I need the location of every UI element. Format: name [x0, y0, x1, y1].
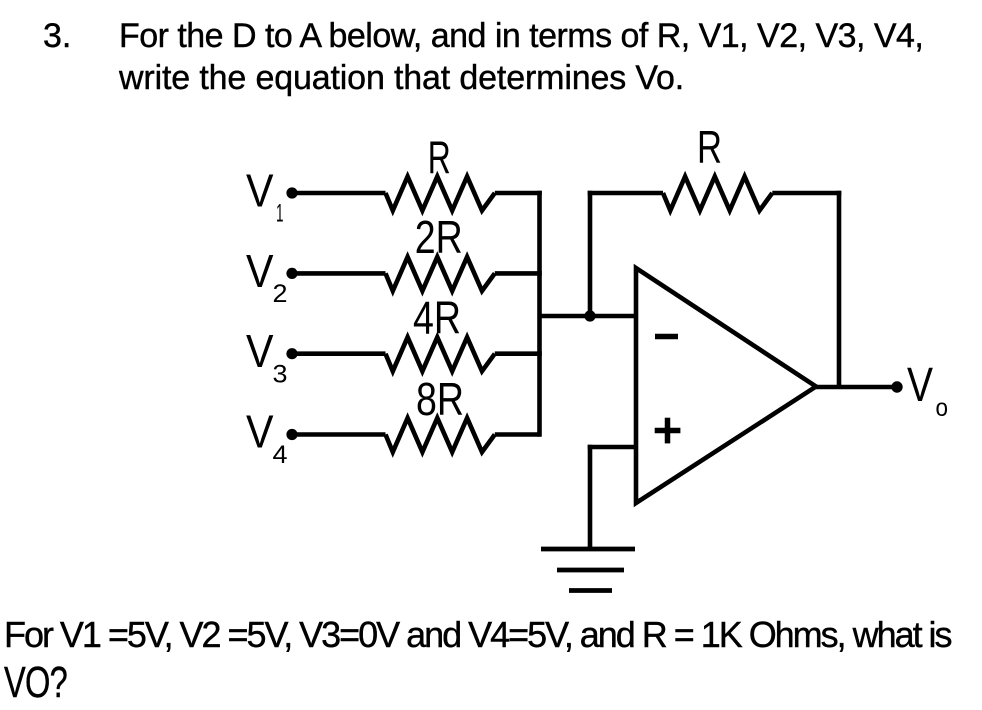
svg-text:V: V: [246, 406, 274, 458]
resistor 4R (row 3): [386, 337, 495, 371]
svg-text:3: 3: [273, 361, 288, 389]
wire V4 lead: [292, 432, 386, 437]
wire V2 lead: [292, 271, 386, 276]
wire R row1 to bus: [495, 191, 542, 196]
node V1 input dot: [286, 187, 297, 198]
svg-text:1: 1: [276, 200, 284, 228]
wire bus to op-amp inverting input: [540, 314, 637, 319]
svg-text:4: 4: [273, 441, 288, 469]
svg-text:2R: 2R: [415, 211, 463, 263]
wire feedback right vertical: [837, 191, 842, 387]
svg-text:R: R: [428, 132, 451, 184]
wire summing bus vertical: [537, 191, 542, 437]
node output dot: [891, 381, 902, 392]
wire feedback left vertical: [588, 191, 593, 316]
svg-text:o: o: [936, 394, 949, 422]
node summing junction dot: [584, 310, 595, 321]
resistor R (feedback): [663, 177, 772, 211]
wire non-inverting input lead: [588, 445, 636, 450]
svg-text:V: V: [246, 165, 274, 217]
svg-text:V: V: [907, 359, 933, 412]
wire 2R row2 to bus: [495, 271, 542, 276]
resistor R (row 1): [386, 177, 495, 211]
node V2 input dot: [286, 268, 297, 279]
question number 3.: [43, 17, 71, 56]
svg-text:8R: 8R: [416, 373, 464, 425]
wire feedback top right segment: [772, 191, 841, 196]
op-amp inverting input minus symbol: [655, 334, 678, 340]
wire op-amp output: [816, 385, 897, 390]
svg-text:V: V: [246, 325, 274, 377]
wire V3 lead: [292, 351, 386, 356]
bottom text line 2: [4, 658, 67, 708]
wire feedback top left segment: [588, 191, 663, 196]
question text line 1: [119, 17, 923, 56]
wire 4R row3 to bus: [495, 351, 542, 356]
op-amp non-inverting input plus symbol: [655, 418, 681, 444]
bottom text line 1: [4, 614, 951, 656]
wire 8R row4 to bus: [495, 432, 540, 437]
ground symbol: [541, 549, 635, 591]
wire V1 lead: [292, 191, 386, 196]
svg-text:V: V: [246, 245, 274, 297]
node V3 input dot: [286, 348, 297, 359]
op-amp U1 triangle: [636, 268, 816, 503]
svg-text:2: 2: [273, 280, 288, 308]
resistor 2R (row 2): [386, 257, 495, 291]
wire ground vertical: [588, 445, 593, 549]
resistor 8R (row 4): [386, 418, 495, 452]
svg-text:R: R: [697, 121, 722, 173]
question text line 2: [119, 59, 684, 98]
svg-text:4R: 4R: [413, 291, 461, 343]
node V4 input dot: [286, 429, 297, 440]
